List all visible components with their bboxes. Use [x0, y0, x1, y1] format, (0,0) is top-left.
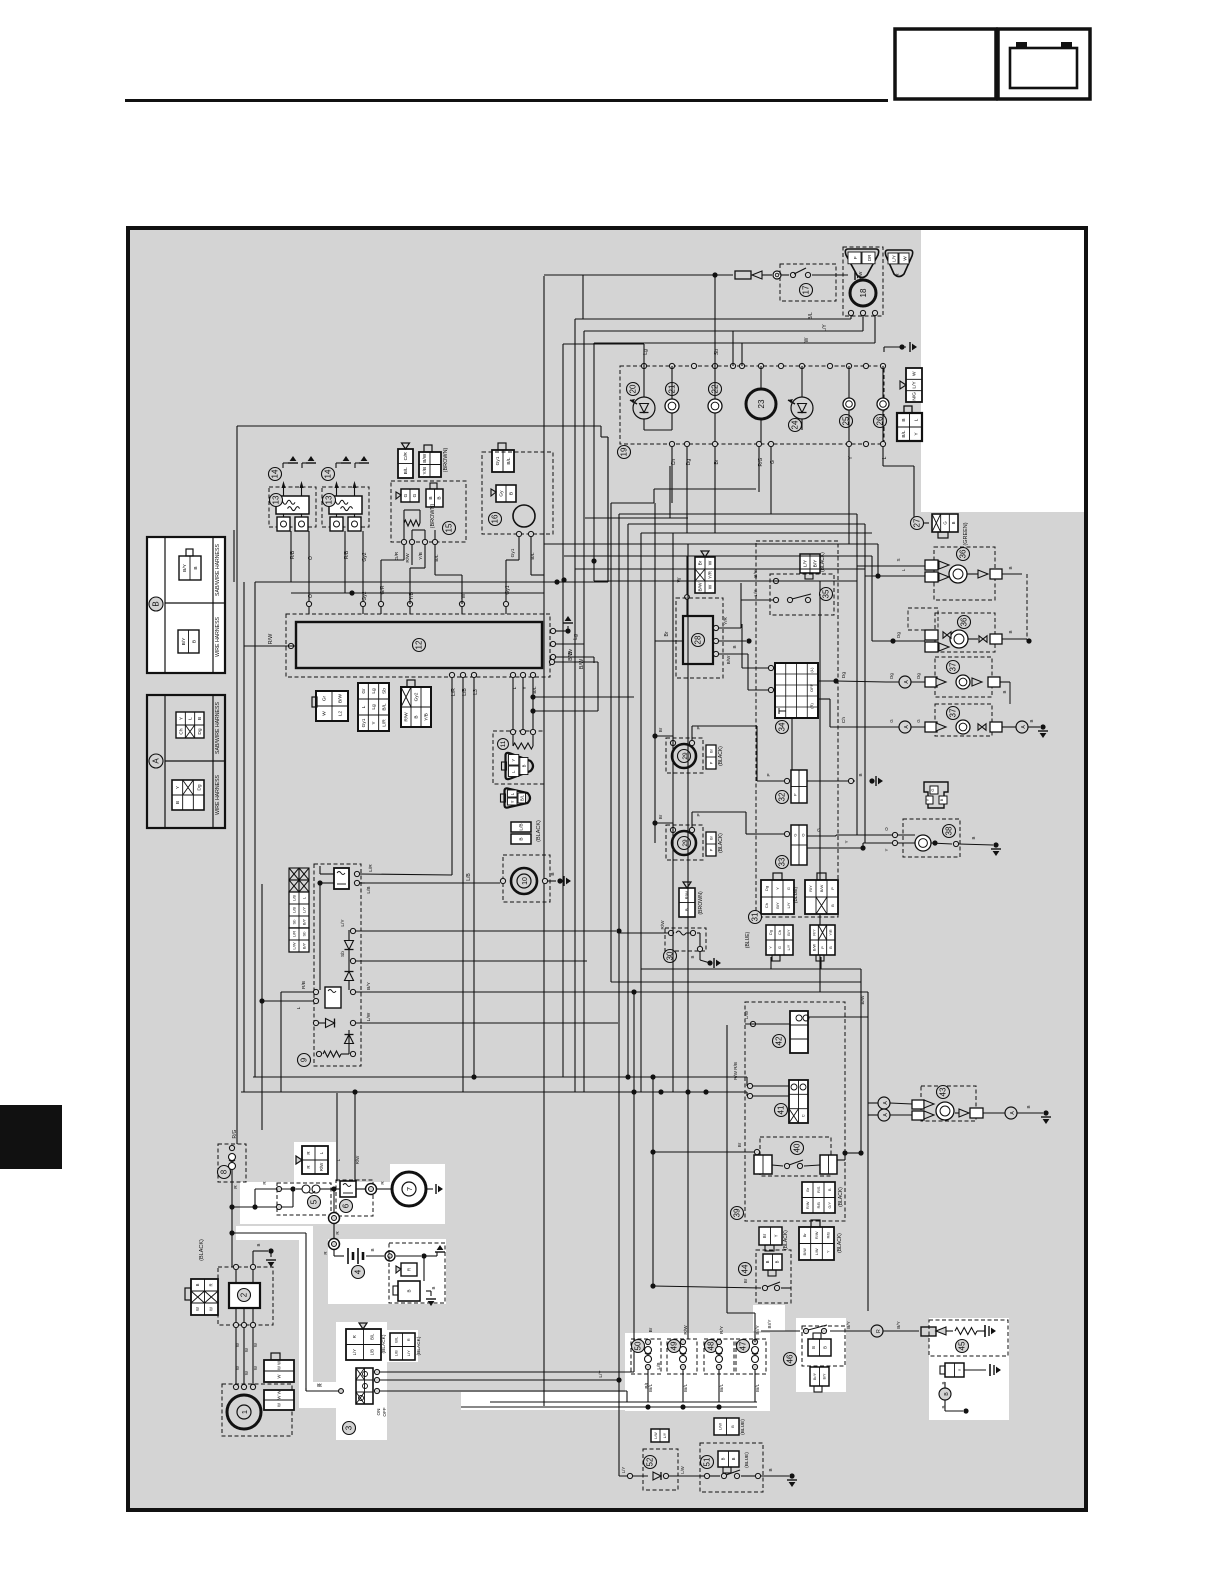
svg-text:13: 13 — [272, 495, 281, 504]
svg-text:R/B: R/B — [344, 550, 350, 559]
svg-text:(BLACK): (BLACK) — [838, 1187, 844, 1207]
svg-text:R: R — [209, 1283, 214, 1286]
svg-text:L/Y: L/Y — [340, 919, 346, 927]
svg-text:L/W: L/W — [744, 1010, 749, 1019]
svg-text:(BROWN): (BROWN) — [430, 503, 436, 528]
svg-text:L/W: L/W — [654, 1432, 658, 1439]
svg-text:16: 16 — [491, 514, 500, 523]
svg-text:Br: Br — [708, 748, 713, 753]
svg-text:8: 8 — [220, 1169, 229, 1174]
svg-text:(BLUE): (BLUE) — [745, 931, 751, 948]
svg-text:14: 14 — [324, 469, 333, 478]
svg-text:Dg: Dg — [197, 728, 203, 734]
svg-text:B/Y: B/Y — [181, 637, 187, 646]
svg-text:(BLACK): (BLACK) — [199, 1239, 205, 1261]
svg-text:44: 44 — [741, 1264, 750, 1273]
svg-text:Dg: Dg — [889, 673, 894, 679]
svg-text:38: 38 — [945, 826, 954, 835]
svg-text:B: B — [193, 566, 199, 569]
svg-text:Br: Br — [658, 814, 663, 819]
svg-text:L/Y: L/Y — [892, 255, 897, 262]
svg-text:L: L — [361, 705, 367, 708]
svg-text:(BLUE): (BLUE) — [740, 1419, 746, 1435]
svg-text:(BLACK): (BLACK) — [837, 1233, 843, 1253]
svg-text:L/Y: L/Y — [663, 1432, 667, 1438]
svg-text:3: 3 — [345, 1425, 354, 1430]
svg-text:B: B — [811, 1346, 816, 1349]
svg-text:SAB/WIRE HARNESS: SAB/WIRE HARNESS — [215, 702, 221, 754]
svg-text:N/G: N/G — [912, 392, 918, 401]
svg-text:B: B — [823, 1346, 828, 1349]
svg-text:W: W — [804, 337, 810, 342]
svg-text:46: 46 — [786, 1354, 795, 1363]
svg-text:B/Y: B/Y — [846, 1321, 851, 1328]
svg-text:G/Y: G/Y — [828, 1202, 832, 1209]
svg-text:Gr: Gr — [361, 688, 367, 694]
svg-text:L/R: L/R — [291, 931, 296, 937]
svg-text:L: L — [512, 686, 518, 689]
svg-text:G: G — [792, 833, 797, 836]
svg-text:B/L: B/L — [519, 794, 524, 801]
svg-text:B/L: B/L — [434, 554, 440, 562]
svg-text:B/Y: B/Y — [301, 942, 306, 949]
svg-text:R: R — [306, 1151, 311, 1154]
svg-text:L/Y: L/Y — [406, 1350, 411, 1356]
svg-text:B: B — [195, 1283, 200, 1286]
svg-text:L/B: L/B — [462, 688, 468, 696]
svg-text:Dg: Dg — [196, 784, 202, 790]
svg-text:B/Y: B/Y — [301, 918, 306, 925]
svg-text:W: W — [322, 711, 328, 716]
svg-text:B: B — [1002, 690, 1007, 693]
svg-text:R: R — [323, 1251, 328, 1254]
svg-text:L/B: L/B — [366, 886, 372, 893]
svg-text:L: L — [913, 418, 919, 421]
svg-text:L/Y: L/Y — [787, 944, 791, 950]
svg-text:Sb: Sb — [301, 931, 306, 937]
svg-text:B/W: B/W — [812, 943, 816, 951]
svg-text:P: P — [696, 726, 701, 729]
svg-text:WIRE HARNESS: WIRE HARNESS — [215, 616, 221, 657]
svg-text:Dg: Dg — [916, 673, 921, 679]
svg-text:B: B — [256, 1243, 261, 1246]
svg-text:Br/Y: Br/Y — [767, 1320, 772, 1329]
svg-text:G: G — [942, 521, 947, 524]
svg-text:W: W — [209, 1307, 214, 1311]
svg-text:P: P — [766, 773, 771, 776]
svg-text:L/Y: L/Y — [598, 1370, 604, 1378]
svg-text:R/W: R/W — [815, 1231, 819, 1239]
svg-text:10: 10 — [522, 877, 529, 885]
svg-text:P: P — [708, 848, 713, 851]
svg-text:B: B — [901, 418, 907, 421]
svg-text:20: 20 — [629, 384, 638, 393]
svg-text:W W: W W — [276, 1390, 281, 1399]
svg-text:G: G — [786, 887, 791, 890]
svg-text:(BLACK): (BLACK) — [718, 746, 724, 766]
svg-text:Y/R: Y/R — [723, 616, 728, 624]
svg-text:(BLACK): (BLACK) — [718, 833, 724, 853]
svg-text:B: B — [428, 496, 434, 499]
svg-text:R/W: R/W — [660, 920, 665, 930]
svg-text:B: B — [550, 872, 556, 875]
svg-text:Y: Y — [826, 1250, 830, 1253]
svg-text:G: G — [778, 946, 782, 949]
svg-text:R/W: R/W — [319, 1162, 324, 1171]
svg-text:B: B — [191, 640, 197, 643]
svg-text:W: W — [276, 1403, 281, 1407]
svg-text:B/W: B/W — [698, 582, 704, 592]
svg-text:Br: Br — [664, 631, 670, 636]
svg-text:Y/R: Y/R — [829, 929, 833, 936]
svg-text:G/R: G/R — [394, 551, 400, 560]
svg-text:G: G — [412, 493, 418, 497]
svg-text:B: B — [730, 1425, 735, 1428]
svg-text:B/W: B/W — [819, 885, 824, 893]
svg-text:L/B: L/B — [394, 1350, 399, 1356]
svg-text:L3: L3 — [473, 689, 479, 695]
svg-text:L/Y: L/Y — [301, 907, 306, 913]
svg-text:B: B — [509, 492, 515, 495]
svg-text:Br/Y: Br/Y — [813, 1372, 817, 1380]
svg-text:R/B: R/B — [817, 1202, 821, 1209]
svg-text:24: 24 — [791, 420, 800, 429]
svg-text:Ch: Ch — [841, 717, 847, 723]
svg-text:L/B: L/B — [466, 873, 472, 881]
svg-text:Ch: Ch — [778, 930, 782, 935]
svg-text:5: 5 — [310, 1199, 319, 1204]
svg-text:B: B — [175, 801, 181, 804]
svg-text:Dg: Dg — [686, 459, 692, 466]
svg-text:Sb: Sb — [382, 688, 388, 694]
svg-text:B: B — [1008, 630, 1013, 633]
svg-text:W: W — [276, 1374, 281, 1378]
svg-text:Br: Br — [658, 727, 663, 732]
svg-text:SAB/WIRE HARNESS: SAB/WIRE HARNESS — [215, 544, 221, 596]
svg-text:R: R — [407, 1268, 412, 1271]
svg-text:O: O — [308, 594, 314, 598]
svg-text:L: L — [882, 456, 888, 459]
svg-text:B: B — [197, 717, 203, 720]
svg-text:B: B — [684, 908, 689, 911]
svg-text:B/Y: B/Y — [787, 929, 791, 936]
svg-text:B/W: B/W — [338, 693, 344, 703]
svg-text:L/W: L/W — [366, 1012, 372, 1021]
svg-text:G: G — [816, 828, 821, 832]
svg-text:B/W: B/W — [579, 658, 585, 669]
svg-text:P: P — [696, 813, 701, 816]
svg-text:B/L: B/L — [506, 457, 512, 465]
svg-text:(BROWN): (BROWN) — [443, 447, 449, 472]
svg-text:L: L — [296, 1006, 302, 1009]
svg-text:7: 7 — [405, 1187, 414, 1191]
svg-text:41: 41 — [777, 1105, 786, 1114]
svg-text:Y: Y — [774, 1234, 779, 1237]
svg-text:(GREEN): (GREEN) — [963, 522, 969, 545]
svg-text:4: 4 — [354, 1269, 363, 1274]
svg-text:39: 39 — [733, 1208, 742, 1217]
svg-text:L/R: L/R — [382, 719, 388, 727]
svg-text:Gy2: Gy2 — [362, 552, 368, 561]
svg-text:B/L: B/L — [382, 703, 388, 711]
svg-text:1: 1 — [240, 1410, 249, 1414]
svg-text:OFF: OFF — [809, 683, 814, 692]
svg-text:Sb: Sb — [340, 951, 346, 957]
svg-text:Ch: Ch — [671, 459, 677, 466]
svg-text:C: C — [801, 1114, 806, 1117]
svg-text:B/L: B/L — [394, 1336, 399, 1343]
svg-text:(L): (L) — [809, 667, 814, 673]
svg-text:R/W: R/W — [355, 1155, 360, 1164]
svg-text:L/B: L/B — [291, 907, 296, 913]
svg-text:Y/B: Y/B — [422, 467, 428, 475]
svg-text:B/Y: B/Y — [896, 1321, 901, 1328]
svg-text:B: B — [521, 764, 526, 767]
svg-text:Br/L: Br/L — [683, 1383, 688, 1392]
svg-text:R: R — [406, 1338, 411, 1341]
svg-text:L2: L2 — [338, 711, 344, 717]
svg-text:Gy1: Gy1 — [510, 548, 516, 557]
svg-text:R/S: R/S — [817, 1186, 821, 1193]
svg-text:31: 31 — [751, 912, 760, 921]
svg-text:Br: Br — [743, 1278, 748, 1283]
svg-text:52: 52 — [646, 1457, 655, 1466]
svg-text:R/W: R/W — [405, 553, 411, 563]
svg-text:45: 45 — [958, 1341, 967, 1350]
svg-text:B/W: B/W — [422, 453, 428, 463]
svg-text:B: B — [939, 798, 944, 801]
svg-text:Y: Y — [510, 800, 515, 803]
svg-text:(BLUE): (BLUE) — [793, 886, 799, 903]
svg-text:R: R — [352, 1335, 357, 1338]
svg-text:11: 11 — [500, 740, 507, 747]
svg-text:B: B — [1026, 1105, 1031, 1108]
svg-text:Y/R: Y/R — [708, 570, 714, 579]
svg-text:B/W: B/W — [568, 651, 574, 661]
svg-text:P: P — [853, 256, 858, 259]
svg-text:G: G — [889, 719, 894, 723]
svg-text:36: 36 — [959, 549, 968, 558]
svg-text:Gy2: Gy2 — [414, 692, 420, 701]
svg-text:B: B — [858, 773, 863, 776]
svg-text:B: B — [431, 1286, 436, 1289]
svg-text:R/G: R/G — [758, 457, 764, 466]
svg-text:R: R — [233, 1185, 239, 1189]
svg-text:15: 15 — [445, 523, 454, 532]
svg-text:32: 32 — [778, 792, 787, 801]
svg-text:L/B: L/B — [519, 823, 525, 830]
svg-text:P: P — [830, 887, 835, 890]
svg-text:9: 9 — [300, 1057, 309, 1062]
svg-text:Br/Y: Br/Y — [755, 1325, 761, 1335]
svg-text:B: B — [690, 955, 695, 958]
svg-text:S: S — [896, 558, 901, 561]
svg-text:Ch: Ch — [178, 728, 184, 734]
svg-text:40: 40 — [793, 1143, 802, 1152]
svg-text:L/W: L/W — [291, 942, 296, 949]
svg-text:R/B: R/B — [301, 981, 307, 989]
svg-text:W: W — [677, 577, 683, 582]
svg-text:(R): (R) — [809, 703, 814, 709]
svg-text:R/B: R/B — [290, 550, 296, 559]
svg-text:(BLACK): (BLACK) — [416, 1336, 422, 1355]
svg-text:Y: Y — [884, 848, 889, 851]
svg-text:48: 48 — [707, 1341, 716, 1350]
svg-text:Gr: Gr — [322, 695, 328, 701]
svg-text:L/W: L/W — [718, 1423, 723, 1430]
svg-text:(BROWN): (BROWN) — [698, 891, 704, 915]
svg-text:Br: Br — [648, 1327, 654, 1332]
svg-text:Ch: Ch — [764, 903, 769, 908]
svg-text:B/W: B/W — [726, 655, 731, 664]
svg-text:P: P — [792, 793, 797, 796]
svg-text:Y/B: Y/B — [424, 713, 430, 721]
svg-text:37: 37 — [949, 708, 958, 717]
svg-text:P: P — [708, 761, 713, 764]
svg-text:Br/L: Br/L — [648, 1383, 653, 1392]
svg-text:R: R — [316, 1383, 322, 1387]
svg-text:W: W — [708, 584, 714, 589]
svg-text:R/Y: R/Y — [808, 885, 813, 892]
svg-text:B/L: B/L — [530, 552, 536, 560]
svg-text:Br: Br — [737, 1142, 742, 1147]
svg-text:Y: Y — [769, 946, 773, 949]
svg-text:Y: Y — [844, 840, 849, 843]
svg-text:G: G — [403, 493, 409, 497]
svg-text:G: G — [770, 460, 776, 464]
svg-text:Br/L: Br/L — [719, 1383, 724, 1392]
svg-text:Dg: Dg — [769, 930, 773, 935]
svg-text:DR: DR — [867, 254, 872, 261]
svg-text:L/Y: L/Y — [621, 1467, 626, 1473]
svg-text:B: B — [775, 1260, 780, 1263]
svg-text:W W: W W — [276, 1361, 281, 1370]
svg-text:R/W: R/W — [683, 1325, 689, 1335]
svg-text:R/G: R/G — [232, 1129, 238, 1138]
svg-text:(BLACK): (BLACK) — [381, 1334, 387, 1353]
svg-text:14: 14 — [271, 469, 280, 478]
svg-text:6: 6 — [342, 1203, 351, 1208]
svg-text:WIRE HARNESS: WIRE HARNESS — [215, 774, 221, 815]
svg-text:Dg: Dg — [896, 632, 901, 638]
svg-text:O: O — [308, 556, 314, 560]
svg-text:B: B — [370, 1248, 375, 1251]
svg-text:L/B: L/B — [291, 895, 296, 901]
svg-text:B/Y: B/Y — [775, 902, 780, 909]
svg-text:42: 42 — [775, 1036, 784, 1045]
svg-text:B: B — [830, 904, 835, 907]
svg-text:(BLUE): (BLUE) — [744, 1452, 750, 1468]
svg-text:O: O — [884, 827, 889, 831]
svg-text:B/Y: B/Y — [813, 559, 819, 568]
svg-text:33: 33 — [778, 857, 787, 866]
svg-text:Sb: Sb — [291, 919, 296, 925]
svg-text:13: 13 — [325, 495, 334, 504]
svg-text:L/R: L/R — [451, 688, 457, 696]
svg-text:B: B — [828, 1188, 832, 1191]
svg-text:B/Y: B/Y — [182, 563, 188, 572]
svg-text:Lg: Lg — [371, 688, 377, 694]
svg-text:L: L — [901, 568, 906, 571]
svg-text:Y: Y — [511, 759, 516, 762]
svg-text:19: 19 — [620, 447, 629, 456]
svg-text:Lg: Lg — [573, 634, 579, 640]
svg-text:27: 27 — [913, 518, 922, 527]
svg-text:Br/L: Br/L — [755, 1383, 760, 1392]
svg-text:Br: Br — [698, 560, 704, 565]
svg-text:23: 23 — [757, 399, 766, 408]
svg-text:Lg: Lg — [371, 704, 377, 710]
svg-text:(BLACK): (BLACK) — [536, 820, 542, 842]
svg-text:35: 35 — [822, 589, 831, 598]
svg-text:R/W: R/W — [268, 633, 274, 645]
svg-text:17: 17 — [802, 285, 811, 294]
svg-text:R/W R/B: R/W R/B — [733, 1062, 738, 1080]
svg-text:49: 49 — [670, 1341, 679, 1350]
svg-text:Gy1: Gy1 — [361, 718, 367, 727]
svg-text:B/L: B/L — [901, 430, 907, 438]
svg-text:Br: Br — [714, 459, 720, 464]
svg-text:L/W: L/W — [815, 1248, 819, 1255]
svg-text:Br: Br — [762, 1233, 767, 1238]
svg-text:34: 34 — [778, 722, 787, 731]
svg-text:W: W — [912, 371, 918, 376]
svg-text:36: 36 — [960, 617, 969, 626]
svg-text:B: B — [407, 1289, 412, 1292]
svg-text:Y/B: Y/B — [418, 552, 424, 560]
svg-text:B: B — [768, 1468, 773, 1471]
svg-text:Br: Br — [708, 835, 713, 840]
svg-text:Dg: Dg — [764, 886, 769, 891]
svg-text:L: L — [188, 717, 194, 720]
svg-text:B: B — [1008, 566, 1013, 569]
svg-text:R: R — [876, 1329, 882, 1333]
svg-text:R/W: R/W — [684, 891, 689, 899]
svg-text:R: R — [306, 1165, 311, 1168]
svg-text:18: 18 — [859, 288, 868, 297]
svg-text:L/Y: L/Y — [352, 1349, 357, 1355]
svg-text:B/L: B/L — [403, 467, 409, 475]
svg-text:W: W — [708, 560, 714, 565]
svg-text:R/Y: R/Y — [812, 929, 816, 936]
svg-text:50: 50 — [634, 1341, 643, 1350]
svg-text:R/Y: R/Y — [719, 1325, 725, 1334]
svg-text:B: B — [951, 521, 956, 524]
svg-text:12: 12 — [415, 640, 424, 649]
svg-text:W: W — [195, 1307, 200, 1311]
svg-text:L/W: L/W — [680, 1466, 685, 1473]
svg-text:51: 51 — [703, 1457, 712, 1466]
svg-text:B: B — [436, 496, 442, 499]
svg-text:B/L: B/L — [808, 312, 814, 320]
svg-text:47: 47 — [739, 1341, 748, 1350]
svg-text:G: G — [916, 719, 921, 723]
svg-text:A: A — [152, 758, 161, 764]
svg-text:B: B — [1029, 719, 1034, 722]
svg-text:L/Y: L/Y — [822, 324, 828, 332]
svg-text:B/Y: B/Y — [823, 1373, 827, 1379]
svg-text:L/B: L/B — [370, 1349, 375, 1355]
svg-text:B: B — [765, 1260, 770, 1263]
svg-text:B/W: B/W — [803, 1248, 807, 1256]
svg-text:Gy: Gy — [499, 490, 505, 497]
svg-text:L/Y: L/Y — [912, 381, 918, 389]
svg-text:O: O — [800, 833, 805, 836]
svg-text:Dg: Dg — [841, 672, 847, 678]
svg-text:Sb: Sb — [714, 349, 720, 355]
svg-text:37: 37 — [949, 662, 958, 671]
svg-text:B: B — [731, 1457, 736, 1460]
